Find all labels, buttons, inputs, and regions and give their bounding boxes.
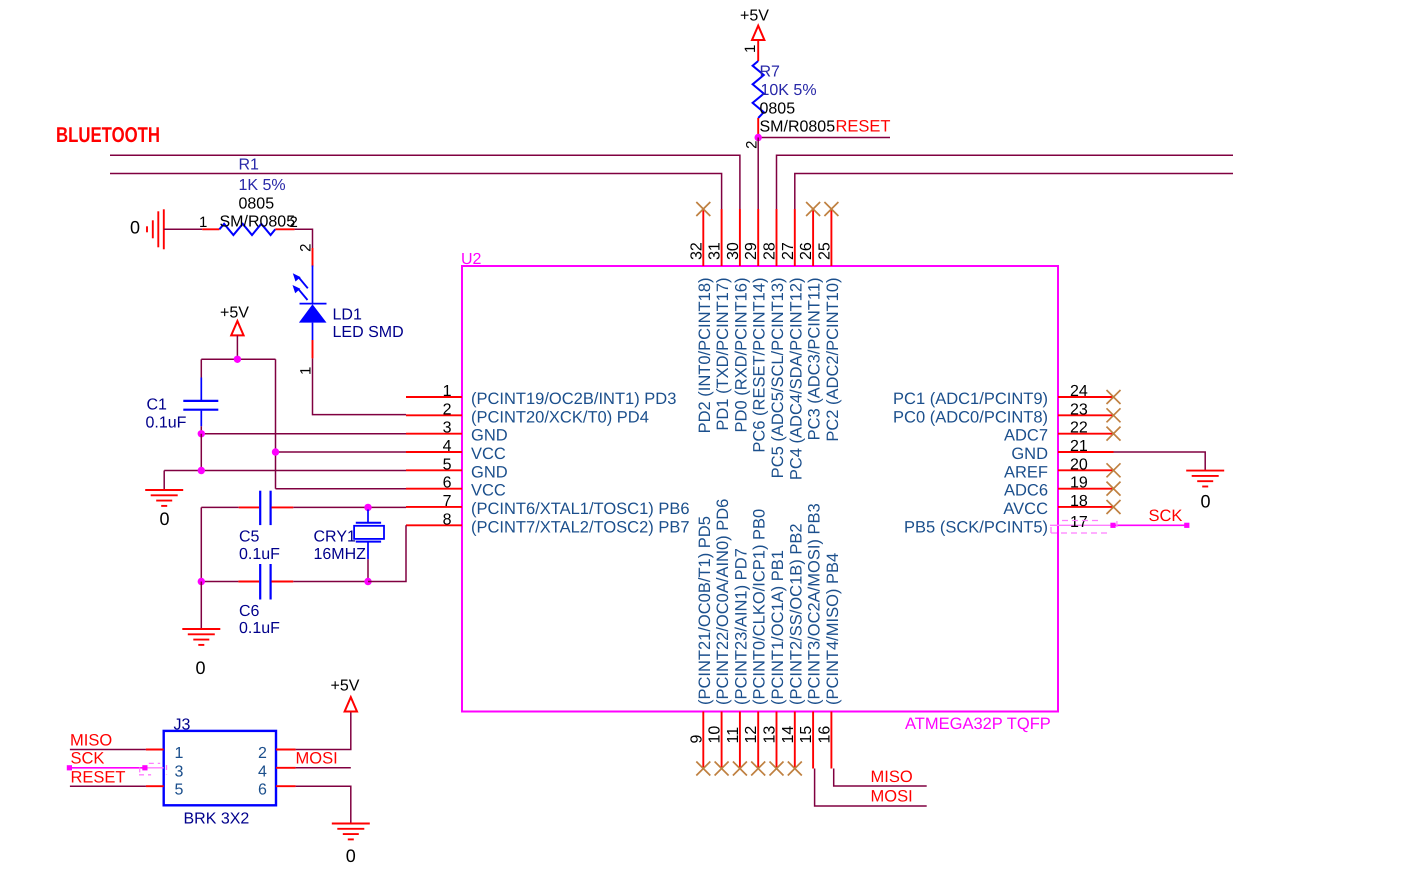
svg-text:21: 21 xyxy=(1070,438,1088,455)
J3 pin 2 stub xyxy=(276,749,296,751)
svg-text:SM/R0805: SM/R0805 xyxy=(760,119,836,136)
svg-text:C5: C5 xyxy=(239,528,260,545)
J3 pin 5 stub xyxy=(146,785,164,787)
svg-text:PC6 (RESET/PCINT14): PC6 (RESET/PCINT14) xyxy=(751,278,769,453)
wire pin3 GND xyxy=(201,433,406,435)
svg-text:9: 9 xyxy=(688,735,705,744)
ground (C6 net 0) xyxy=(182,629,220,645)
junction crystal top / pin7 xyxy=(364,504,371,511)
no-connect X xyxy=(696,762,710,776)
svg-text:17: 17 xyxy=(1070,514,1088,531)
svg-text:PB5 (SCK/PCINT5): PB5 (SCK/PCINT5) xyxy=(904,518,1048,536)
svg-text:PC3 (ADC3/PCINT11): PC3 (ADC3/PCINT11) xyxy=(806,278,824,441)
U2 pin 15 stub xyxy=(812,712,814,769)
wire rail down left xyxy=(200,359,202,377)
U2 pin 14 stub xyxy=(794,712,796,769)
U2 pin 30 stub xyxy=(739,209,741,266)
svg-text:3: 3 xyxy=(175,763,184,780)
crystal CRY1 xyxy=(354,510,384,560)
U2 pin 31 stub xyxy=(721,209,723,266)
svg-text:LD1: LD1 xyxy=(333,307,362,324)
U2 pin 29 stub xyxy=(757,209,759,266)
U2 pin 17 stub (highlighted) xyxy=(1050,524,1114,526)
svg-text:C6: C6 xyxy=(239,603,260,620)
svg-text:(PCINT20/XCK/T0) PD4: (PCINT20/XCK/T0) PD4 xyxy=(471,408,649,426)
no-connect X xyxy=(1107,408,1121,422)
svg-text:26: 26 xyxy=(798,242,815,260)
svg-text:3: 3 xyxy=(443,420,452,437)
svg-text:0: 0 xyxy=(130,218,140,238)
svg-text:BRK 3X2: BRK 3X2 xyxy=(184,811,250,828)
wire BLUETOOTH TX upper-left to pin30 xyxy=(110,155,740,209)
svg-text:SCK: SCK xyxy=(1149,507,1183,525)
junction pin5 xyxy=(198,467,205,474)
svg-text:0: 0 xyxy=(195,658,205,678)
resistor R7 zigzag xyxy=(753,61,764,118)
U2 pin 27 stub xyxy=(794,209,796,266)
svg-text:+5V: +5V xyxy=(220,305,249,322)
svg-text:MOSI: MOSI xyxy=(871,788,913,806)
U2 pin 22 stub xyxy=(1058,433,1114,435)
wire BLUETOOTH lower-left to pin31 xyxy=(110,174,722,210)
svg-text:(PCINT0/CLKO/ICP1) PB0: (PCINT0/CLKO/ICP1) PB0 xyxy=(751,509,769,705)
svg-text:28: 28 xyxy=(762,242,779,260)
connector J3 body xyxy=(164,731,276,805)
no-connect X xyxy=(696,202,710,216)
U2 pin 13 stub xyxy=(776,712,778,769)
power +5V symbol (J3) xyxy=(345,697,357,711)
svg-text:VCC: VCC xyxy=(471,445,506,463)
SCK wire end square xyxy=(142,765,147,770)
svg-text:16MHZ: 16MHZ xyxy=(314,546,367,563)
junction C6 left xyxy=(198,578,205,585)
svg-text:LED SMD: LED SMD xyxy=(333,324,404,341)
svg-text:10: 10 xyxy=(707,726,724,744)
svg-text:ADC6: ADC6 xyxy=(1004,482,1048,500)
wire SCK net xyxy=(1113,524,1187,526)
U2 pin 16 stub xyxy=(830,712,832,769)
wire J3 pin3 SCK xyxy=(69,767,144,769)
svg-text:5: 5 xyxy=(175,782,184,799)
svg-text:SM/R0805: SM/R0805 xyxy=(220,214,296,231)
J3 pin 3 stub (highlighted) xyxy=(145,767,164,769)
svg-text:(PCINT2/SS/OC1B) PB2: (PCINT2/SS/OC1B) PB2 xyxy=(787,523,805,705)
U2 pin 18 stub xyxy=(1058,506,1114,508)
LED LD1 symbol xyxy=(293,266,327,341)
no-connect X xyxy=(1107,390,1121,404)
wire LED to pin2 PD4 xyxy=(313,358,407,414)
svg-text:0.1uF: 0.1uF xyxy=(146,415,187,432)
svg-text:16: 16 xyxy=(816,726,833,744)
svg-text:SCK: SCK xyxy=(71,750,105,768)
capacitor C5 xyxy=(239,491,294,525)
U2 pin 3 stub xyxy=(406,433,462,435)
wire C5/C6 left column xyxy=(200,507,202,581)
LED pin 1 lead xyxy=(312,340,314,358)
svg-text:15: 15 xyxy=(798,726,815,744)
svg-text:GND: GND xyxy=(471,463,508,481)
U2 pin 28 stub xyxy=(776,209,778,266)
J3 pin 6 stub xyxy=(276,785,296,787)
svg-text:PD1 (TXD/PCINT17): PD1 (TXD/PCINT17) xyxy=(714,278,732,431)
svg-text:ADC7: ADC7 xyxy=(1004,427,1048,445)
svg-text:32: 32 xyxy=(688,242,705,260)
svg-text:13: 13 xyxy=(762,726,779,744)
wire J3 pin2 to +5V xyxy=(296,712,351,749)
U2 pin 32 stub xyxy=(702,209,704,266)
svg-text:+5V: +5V xyxy=(331,678,360,695)
no-connect X xyxy=(715,762,729,776)
svg-text:10K 5%: 10K 5% xyxy=(761,82,817,99)
SCK wire end square xyxy=(67,765,72,770)
U2 pin 24 stub xyxy=(1058,396,1114,398)
wire +5V to rail xyxy=(236,335,238,359)
svg-text:RESET: RESET xyxy=(71,768,126,786)
svg-text:2: 2 xyxy=(290,214,298,231)
svg-text:MISO: MISO xyxy=(871,768,913,786)
no-connect X xyxy=(751,762,765,776)
svg-text:(PCINT23/AIN1) PD7: (PCINT23/AIN1) PD7 xyxy=(732,548,750,705)
no-connect X xyxy=(733,762,747,776)
U2 pin 11 stub xyxy=(739,712,741,769)
capacitor C1 xyxy=(183,378,218,427)
svg-text:1: 1 xyxy=(742,45,759,53)
svg-text:PC2 (ADC2/PCINT10): PC2 (ADC2/PCINT10) xyxy=(824,278,842,442)
svg-text:BLUETOOTH: BLUETOOTH xyxy=(56,123,160,147)
ground (J3 net 0) xyxy=(332,824,370,840)
U2 pin 25 stub xyxy=(830,209,832,266)
svg-text:(PCINT1/OC1A) PB1: (PCINT1/OC1A) PB1 xyxy=(769,550,787,705)
junction pin4 VCC xyxy=(272,448,279,455)
wire J3 pin4 MOSI xyxy=(296,767,351,769)
wire J3 pin5 RESET xyxy=(70,785,146,787)
svg-text:PC1 (ADC1/PCINT9): PC1 (ADC1/PCINT9) xyxy=(893,390,1048,408)
wire R1 to LED xyxy=(295,229,313,248)
wire pin16 MISO xyxy=(834,769,927,787)
svg-text:1K 5%: 1K 5% xyxy=(239,177,286,194)
svg-text:R7: R7 xyxy=(760,64,781,81)
svg-text:0: 0 xyxy=(159,509,169,529)
svg-text:ATMEGA32P TQFP: ATMEGA32P TQFP xyxy=(905,715,1051,733)
svg-text:19: 19 xyxy=(1070,475,1088,492)
svg-text:1: 1 xyxy=(443,383,452,400)
svg-text:4: 4 xyxy=(443,438,452,455)
svg-text:U2: U2 xyxy=(461,251,482,268)
svg-text:RESET: RESET xyxy=(836,118,891,136)
wire ground to R1 xyxy=(164,228,203,230)
svg-text:MISO: MISO xyxy=(70,732,112,750)
svg-text:18: 18 xyxy=(1070,493,1088,510)
svg-text:(PCINT7/XTAL2/TOSC2) PB7: (PCINT7/XTAL2/TOSC2) PB7 xyxy=(471,518,690,536)
U2 pin 6 stub xyxy=(406,488,462,490)
svg-text:(PCINT4/MISO) PB4: (PCINT4/MISO) PB4 xyxy=(824,553,842,705)
R1 pin 1 lead xyxy=(202,228,219,230)
wire upper-right from pin28 xyxy=(777,155,1234,209)
svg-text:J3: J3 xyxy=(174,717,191,734)
U2 pin 9 stub xyxy=(702,712,704,769)
capacitor C6 xyxy=(238,564,293,600)
U2 pin 20 stub xyxy=(1058,469,1114,471)
U2 pin 19 stub xyxy=(1058,488,1114,490)
svg-text:23: 23 xyxy=(1070,401,1088,418)
svg-text:5: 5 xyxy=(443,456,452,473)
svg-text:30: 30 xyxy=(725,242,742,260)
U2 pin 5 stub xyxy=(406,469,462,471)
wire C1 col to pin5 row xyxy=(200,434,202,471)
U2 pin 23 stub xyxy=(1058,414,1114,416)
wire crystal bottom xyxy=(367,559,369,581)
svg-text:AVCC: AVCC xyxy=(1003,500,1048,518)
wire lower-right from pin27 xyxy=(795,174,1233,210)
svg-text:20: 20 xyxy=(1070,456,1088,473)
wire C5 left xyxy=(201,506,238,508)
wire to ground (C1) xyxy=(163,471,165,491)
ground sideways (R1) xyxy=(147,209,164,249)
svg-text:PD2 (INT0/PCINT18): PD2 (INT0/PCINT18) xyxy=(696,278,714,434)
wire pin6 VCC xyxy=(276,488,407,490)
svg-text:0805: 0805 xyxy=(239,196,275,213)
svg-text:(PCINT6/XTAL1/TOSC1) PB6: (PCINT6/XTAL1/TOSC1) PB6 xyxy=(471,500,690,518)
wire RESET to pin29 xyxy=(757,138,759,210)
svg-text:VCC: VCC xyxy=(471,482,506,500)
wire pin5 GND xyxy=(164,470,406,472)
svg-text:8: 8 xyxy=(443,511,452,528)
U2 pin 12 stub xyxy=(757,712,759,769)
svg-text:PD0 (RXD/PCINT16): PD0 (RXD/PCINT16) xyxy=(732,278,750,433)
wire +5V to R7 xyxy=(757,40,759,61)
R1 pin 2 lead xyxy=(275,228,294,230)
resistor R1 zigzag xyxy=(219,224,275,235)
power +5V symbol (C1) xyxy=(231,321,243,335)
junction RESET/R7 xyxy=(755,134,762,141)
svg-text:PC5 (ADC5/SCL/PCINT13): PC5 (ADC5/SCL/PCINT13) xyxy=(769,278,787,479)
svg-text:4: 4 xyxy=(258,763,267,780)
wire C6 to ground xyxy=(200,582,202,630)
svg-text:6: 6 xyxy=(258,782,267,799)
J3 pin 4 stub xyxy=(276,767,296,769)
LED pin 2 lead xyxy=(312,248,314,267)
svg-text:0: 0 xyxy=(346,846,356,866)
svg-text:1: 1 xyxy=(199,214,207,231)
svg-text:2: 2 xyxy=(443,401,452,418)
svg-text:2: 2 xyxy=(258,745,267,762)
J3 pin 1 stub xyxy=(146,749,164,751)
wire C6 rail xyxy=(201,581,238,583)
svg-text:(PCINT21/OC0B/T1) PD5: (PCINT21/OC0B/T1) PD5 xyxy=(696,516,714,705)
svg-text:GND: GND xyxy=(1011,445,1048,463)
svg-text:(PCINT19/OC2B/INT1) PD3: (PCINT19/OC2B/INT1) PD3 xyxy=(471,390,676,408)
svg-text:22: 22 xyxy=(1070,420,1088,437)
svg-text:27: 27 xyxy=(780,242,797,260)
junction C1/pin3 xyxy=(198,430,205,437)
U2 pin 21 stub xyxy=(1058,451,1114,453)
svg-text:6: 6 xyxy=(443,475,452,492)
svg-text:31: 31 xyxy=(707,242,724,260)
U2 pin 8 stub xyxy=(406,524,462,526)
no-connect X xyxy=(770,762,784,776)
U2 pin 10 stub xyxy=(721,712,723,769)
U2 pin 1 stub xyxy=(406,396,462,398)
svg-text:0805: 0805 xyxy=(760,101,796,118)
no-connect X xyxy=(788,762,802,776)
no-connect X xyxy=(824,202,838,216)
ground (C1 net 0) xyxy=(145,490,183,506)
svg-text:PC4 (ADC4/SDA/PCINT12): PC4 (ADC4/SDA/PCINT12) xyxy=(787,278,805,481)
svg-text:PC0 (ADC0/PCINT8): PC0 (ADC0/PCINT8) xyxy=(893,408,1048,426)
junction +5V rail xyxy=(234,356,241,363)
no-connect X xyxy=(1107,500,1121,514)
no-connect X xyxy=(806,202,820,216)
svg-text:0: 0 xyxy=(1200,492,1210,512)
wire VCC col xyxy=(275,359,277,488)
svg-text:25: 25 xyxy=(816,242,833,260)
wire pin21 GND xyxy=(1114,452,1206,471)
svg-text:29: 29 xyxy=(743,242,760,260)
svg-text:0.1uF: 0.1uF xyxy=(239,546,280,563)
svg-text:24: 24 xyxy=(1070,383,1088,400)
SCK wire end square xyxy=(1110,523,1115,528)
svg-text:C1: C1 xyxy=(147,397,168,414)
svg-text:0.1uF: 0.1uF xyxy=(239,620,280,637)
SCK label dashed frame (J3) xyxy=(139,763,167,774)
svg-text:GND: GND xyxy=(471,427,508,445)
U2 pin 2 stub xyxy=(406,414,462,416)
svg-text:MOSI: MOSI xyxy=(296,750,338,768)
ground (pin21 net 0) xyxy=(1186,471,1224,487)
chip U2 ATMEGA32P TQFP body xyxy=(462,266,1058,712)
wire C6 to crystal xyxy=(293,581,368,583)
svg-text:(PCINT3/OC2A/MOSI) PB3: (PCINT3/OC2A/MOSI) PB3 xyxy=(806,503,824,705)
wire pin4 VCC xyxy=(276,451,407,453)
wire RESET net xyxy=(758,137,890,139)
wire J3 pin6 to ground xyxy=(296,786,351,823)
wire J3 pin1 MISO xyxy=(70,749,146,751)
svg-text:AREF: AREF xyxy=(1004,463,1048,481)
wire +5V rail xyxy=(201,358,275,360)
SCK label dashed frame xyxy=(1051,521,1117,534)
no-connect X xyxy=(1107,427,1121,441)
svg-text:1: 1 xyxy=(175,745,184,762)
wire crystal to pin8 xyxy=(368,525,406,581)
U2 pin 26 stub xyxy=(812,209,814,266)
R7 pin 2 lead xyxy=(757,118,759,138)
no-connect X xyxy=(1107,482,1121,496)
svg-text:(PCINT22/OC0A/AIN0) PD6: (PCINT22/OC0A/AIN0) PD6 xyxy=(714,499,732,705)
wire C5 to pin7 xyxy=(293,506,406,508)
svg-text:CRY1: CRY1 xyxy=(314,528,356,545)
U2 pin 4 stub xyxy=(406,451,462,453)
svg-text:12: 12 xyxy=(743,726,760,744)
wire pin15 MOSI xyxy=(815,769,927,807)
no-connect X xyxy=(1107,463,1121,477)
SCK wire end square xyxy=(1184,523,1189,528)
junction crystal bottom xyxy=(364,578,371,585)
wire C1 to pin3 row xyxy=(200,426,202,434)
svg-text:7: 7 xyxy=(443,493,452,510)
U2 pin 7 stub xyxy=(406,506,462,508)
power +5V symbol (R7) xyxy=(752,26,764,40)
svg-text:+5V: +5V xyxy=(740,8,769,25)
svg-text:R1: R1 xyxy=(239,157,260,174)
svg-text:14: 14 xyxy=(780,726,797,744)
svg-text:11: 11 xyxy=(725,727,742,744)
